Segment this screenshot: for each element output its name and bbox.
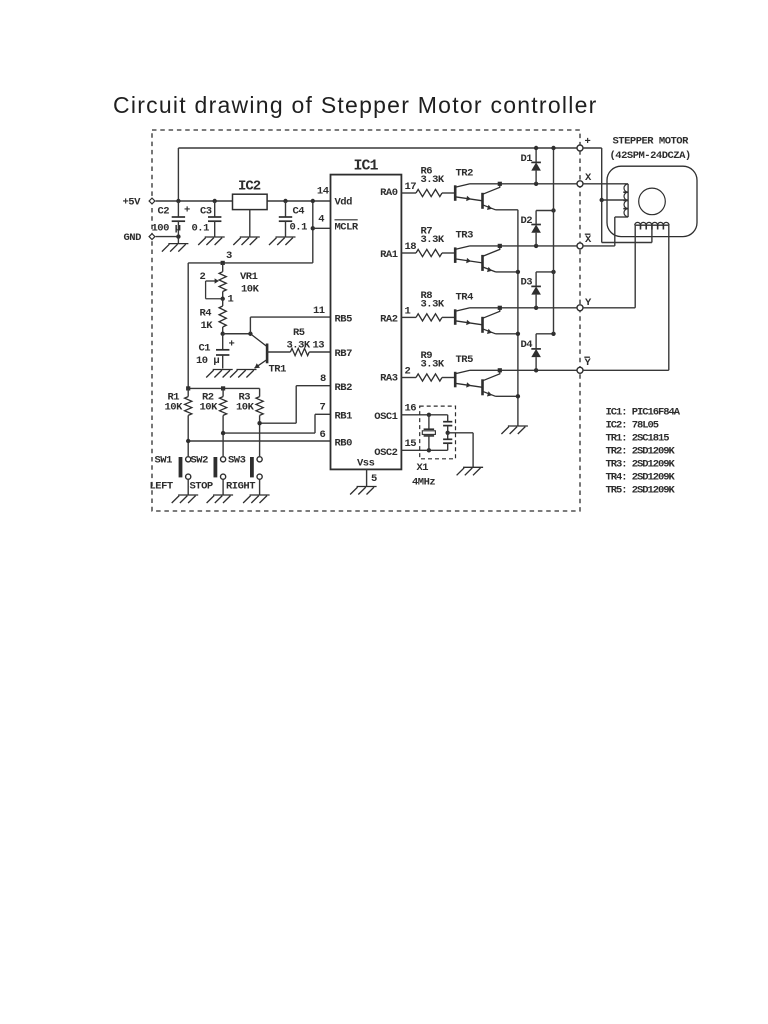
svg-text:C3: C3: [200, 206, 212, 218]
svg-text:3.3K: 3.3K: [421, 234, 445, 246]
wire RB1 pin: [223, 402, 330, 434]
diode D1: [521, 146, 541, 186]
IC1 pin name labels: [335, 187, 398, 470]
svg-text:D2: D2: [521, 215, 533, 227]
ground below oscillator: [457, 467, 484, 475]
svg-text:RA2: RA2: [380, 314, 398, 326]
svg-text:RB0: RB0: [335, 438, 353, 450]
svg-text:1K: 1K: [201, 320, 214, 332]
svg-text:4: 4: [318, 214, 324, 226]
terminal X: [577, 172, 592, 187]
wire RB0 pin: [188, 429, 330, 441]
svg-text:TR2: 2SD1209K: TR2: 2SD1209K: [606, 446, 676, 458]
svg-text:+: +: [184, 205, 190, 217]
svg-text:10K: 10K: [200, 402, 219, 414]
svg-text:3.3K: 3.3K: [421, 359, 445, 371]
switch SW2 STOP: [190, 455, 234, 504]
transistor TR2 darlington: [455, 167, 518, 210]
capacitor C1 10u: [196, 334, 235, 369]
svg-text:SW1: SW1: [155, 455, 173, 467]
IC2 ground pin: [233, 210, 259, 245]
svg-text:16: 16: [405, 403, 417, 415]
wire + top rail: [178, 147, 580, 149]
resistor R4 1K: [200, 299, 227, 336]
resistor R2 10K: [200, 388, 227, 456]
svg-text:5: 5: [371, 473, 377, 485]
svg-text:6: 6: [320, 429, 326, 441]
terminal Xbar: [577, 234, 592, 249]
ground below C4: [269, 237, 296, 245]
svg-text:SW3: SW3: [228, 455, 246, 467]
svg-text:TR1: TR1: [269, 364, 287, 376]
diode D2: [521, 208, 556, 248]
svg-text:RB5: RB5: [335, 314, 353, 326]
oscillator dashed box: [420, 406, 456, 459]
svg-text:Vss: Vss: [357, 458, 375, 470]
wire OSC2 pin: [401, 438, 447, 452]
resistor R8 3.3K: [401, 290, 455, 321]
svg-text:TR1: 2SC1815: TR1: 2SC1815: [606, 433, 670, 445]
terminal Ybar: [577, 357, 592, 373]
stepper motor body: [607, 166, 697, 236]
svg-text:X: X: [585, 234, 592, 246]
diode D3: [521, 270, 556, 310]
svg-text:TR2: TR2: [456, 167, 474, 179]
wire X to winding: [583, 183, 628, 185]
crystal X1 4MHz: [422, 415, 435, 451]
svg-text:C2: C2: [158, 206, 170, 218]
svg-text:R5: R5: [293, 327, 305, 339]
svg-text:RA0: RA0: [380, 187, 398, 199]
wire R4 node: [223, 332, 253, 336]
svg-text:10K: 10K: [241, 284, 260, 296]
dashed circuit boundary: [152, 130, 580, 511]
switch SW3 RIGHT: [226, 455, 270, 504]
svg-text:TR4: TR4: [456, 291, 474, 303]
wire Ybar to winding: [583, 225, 669, 370]
wire +5V to IC2 input: [156, 200, 233, 202]
svg-text:C4: C4: [293, 206, 305, 218]
wire output Ybar line: [470, 368, 580, 372]
motor winding X-Xbar: [623, 184, 628, 217]
svg-text:TR3: TR3: [456, 229, 474, 241]
svg-text:RIGHT: RIGHT: [226, 480, 255, 492]
ground below TR1 emitter: [230, 370, 257, 378]
svg-text:IC2: IC2: [238, 179, 261, 195]
motor name label: [610, 136, 691, 163]
capacitor C2 100u: [152, 201, 191, 237]
svg-text:TR3: 2SD1209K: TR3: 2SD1209K: [606, 459, 676, 471]
svg-text:RA3: RA3: [380, 373, 398, 385]
svg-text:Y: Y: [585, 357, 592, 369]
svg-text:GND: GND: [124, 232, 142, 244]
wire +V vertical: [551, 146, 555, 334]
transistor TR5 darlington: [455, 354, 518, 397]
svg-text:2: 2: [405, 366, 411, 378]
svg-text:Vdd: Vdd: [335, 197, 353, 209]
svg-text:10K: 10K: [165, 402, 184, 414]
svg-text:STEPPER MOTOR: STEPPER MOTOR: [613, 136, 690, 148]
svg-text:3.3K: 3.3K: [421, 174, 445, 186]
wire pullup rail: [186, 386, 260, 390]
resistor R6 3.3K: [401, 166, 455, 197]
title: [113, 92, 598, 119]
resistor R9 3.3K: [401, 350, 455, 381]
motor rotor: [639, 188, 666, 215]
svg-text:LEFT: LEFT: [150, 480, 173, 492]
svg-text:D1: D1: [521, 153, 533, 165]
crystal labels: [412, 462, 435, 489]
svg-text:1: 1: [228, 294, 234, 306]
IC1 left pin numbers: [317, 186, 329, 226]
svg-text:C1: C1: [199, 343, 211, 355]
svg-text:TR4: 2SD1209K: TR4: 2SD1209K: [606, 472, 676, 484]
svg-text:X1: X1: [417, 462, 429, 474]
wire Vdd-MCLR riser: [311, 199, 315, 263]
svg-text:+5V: +5V: [123, 197, 142, 209]
resistor R3 10K: [236, 388, 263, 456]
wire GND to C2: [156, 234, 181, 238]
wire OSC1 pin: [401, 403, 447, 417]
svg-text:3.3K: 3.3K: [421, 298, 445, 310]
transistor TR1: [250, 334, 286, 376]
capacitor C4 0.1: [279, 199, 307, 237]
svg-text:1: 1: [405, 305, 411, 317]
svg-text:0.1: 0.1: [192, 223, 210, 235]
svg-text:D3: D3: [521, 277, 533, 289]
resistor R7 3.3K: [401, 226, 455, 257]
svg-text:100 μ: 100 μ: [152, 223, 181, 235]
regulator IC2: [233, 179, 268, 210]
transistor TR3 darlington: [455, 229, 518, 272]
svg-text:18: 18: [405, 241, 417, 253]
svg-text:STOP: STOP: [190, 480, 213, 492]
GND input terminal: [124, 232, 155, 244]
svg-text:IC1: IC1: [354, 158, 379, 175]
svg-text:+: +: [229, 339, 235, 351]
svg-text:OSC2: OSC2: [374, 447, 397, 459]
svg-text:3: 3: [226, 250, 232, 262]
wire Y to winding: [583, 225, 635, 308]
capacitor osc bottom: [443, 433, 452, 451]
ground below emitter bus: [501, 426, 528, 434]
motor winding Y-Ybar: [635, 222, 669, 229]
wire IC2 output to Vdd: [267, 200, 330, 202]
parts list: [606, 407, 681, 497]
svg-text:R4: R4: [200, 307, 212, 319]
svg-text:13: 13: [313, 340, 325, 352]
switch SW1 LEFT: [150, 455, 199, 504]
svg-text:TR5: TR5: [456, 354, 474, 366]
svg-text:+: +: [585, 136, 591, 148]
svg-text:10 μ: 10 μ: [196, 355, 219, 367]
wire RB2 pin: [260, 373, 331, 423]
svg-text:TR5: 2SD1209K: TR5: 2SD1209K: [606, 485, 676, 497]
wire osc to ground: [448, 433, 473, 468]
svg-text:8: 8: [320, 373, 326, 385]
svg-text:RB1: RB1: [335, 411, 353, 423]
pin 13 label: [313, 340, 325, 352]
wire + to winding center taps: [583, 148, 652, 243]
svg-text:X: X: [585, 172, 592, 184]
resistor R1 10K: [165, 388, 192, 456]
wire output X line: [470, 182, 580, 186]
wire node to VR1 rail: [188, 250, 313, 265]
transistor TR4 darlington: [455, 291, 518, 334]
wire output Xbar line: [470, 244, 580, 248]
ground below C2: [162, 237, 189, 252]
wire RB5 pin: [250, 305, 330, 334]
svg-text:(42SPM-24DCZA): (42SPM-24DCZA): [610, 150, 691, 162]
+5V input terminal: [123, 197, 155, 209]
svg-text:14: 14: [317, 186, 329, 198]
wire MCLR pin: [313, 227, 331, 229]
svg-text:IC1: PIC16F84A: IC1: PIC16F84A: [606, 407, 681, 419]
svg-text:0.1: 0.1: [290, 222, 308, 234]
IC U1 PIC16F84A body: [331, 158, 402, 470]
wire left pullup riser: [187, 263, 189, 389]
wire common emitter bus: [516, 210, 520, 426]
svg-text:RB2: RB2: [335, 382, 353, 394]
diode D4: [521, 332, 556, 373]
svg-text:MCLR: MCLR: [335, 222, 359, 234]
svg-text:3.3K: 3.3K: [287, 340, 311, 352]
svg-text:RB7: RB7: [335, 348, 353, 360]
svg-text:SW2: SW2: [191, 455, 209, 467]
svg-text:IC2: 78L05: IC2: 78L05: [606, 420, 659, 432]
svg-text:11: 11: [313, 305, 325, 317]
wire output Y line: [470, 306, 580, 310]
svg-text:15: 15: [405, 438, 417, 450]
resistor R5 3.3K: [267, 327, 330, 356]
svg-text:10K: 10K: [236, 402, 255, 414]
capacitor C3 0.1: [192, 199, 222, 237]
svg-text:RA1: RA1: [380, 249, 398, 261]
wire riser to top rail: [176, 148, 180, 203]
ground below C1: [206, 370, 233, 378]
svg-text:OSC1: OSC1: [374, 411, 397, 423]
potentiometer VR1 10K: [200, 263, 260, 306]
IC1 Vss ground pin: [350, 469, 377, 494]
terminal +: [577, 136, 591, 151]
svg-text:D4: D4: [521, 339, 533, 351]
svg-text:17: 17: [405, 181, 417, 193]
ground below C3: [198, 237, 225, 245]
wire Xbar to winding: [583, 217, 628, 246]
svg-text:VR1: VR1: [240, 271, 258, 283]
svg-text:4MHz: 4MHz: [412, 477, 435, 489]
svg-text:7: 7: [320, 402, 326, 414]
terminal Y: [577, 297, 592, 311]
svg-text:2: 2: [200, 271, 206, 283]
capacitor osc top: [443, 415, 452, 435]
